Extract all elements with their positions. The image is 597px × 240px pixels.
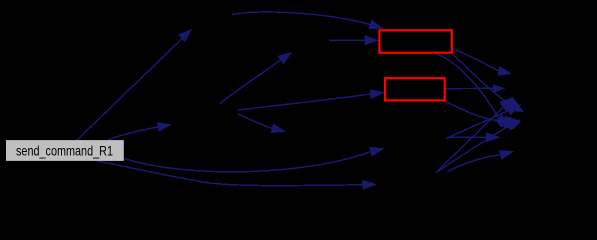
arrowhead into node2 <box>178 29 192 42</box>
arrowhead into red box1 top corner <box>368 20 383 30</box>
arrowhead into far node F3 <box>486 132 501 142</box>
arrowhead into node6 <box>271 123 286 133</box>
edge node5 to node6 <box>238 114 272 128</box>
red box2 (highlighted node, truncated graph) <box>385 78 445 100</box>
svg-text:send_command_R1: send_command_R1 <box>16 144 113 159</box>
edge send_command_R1 to node2 (top) <box>77 39 182 140</box>
edge node5 to red box2 <box>238 94 370 110</box>
edge node8 to far node F4 <box>448 155 501 172</box>
red box1 (highlighted node, truncated graph) <box>379 30 451 52</box>
edge red box2 corner to far cluster (descending) <box>445 101 505 120</box>
arrowhead into far node F1 <box>497 66 512 76</box>
arrowhead far cluster from node7 <box>506 105 521 116</box>
arrowhead into node8 <box>362 180 377 190</box>
arrowhead far cluster upper from node8 steepest <box>500 98 514 111</box>
arrowhead into red box2 <box>370 89 385 99</box>
edge nodeX to red box1 (horizontal) <box>329 39 365 41</box>
edge node8 to far cluster upper (steepest ascending) <box>438 107 503 170</box>
arrowhead far cluster upper from red box1 <box>509 101 524 113</box>
arrowhead into far node F4 <box>499 150 514 160</box>
far cluster upper lobe overlap filler <box>500 97 525 112</box>
node send_command_R1 (grey current node) <box>6 140 124 161</box>
edge send_command_R1 to node8 (bottom curve) <box>97 161 363 186</box>
edge red box1 bottom to far cluster lower (steep descending) <box>436 54 499 118</box>
edge node8 to far cluster (steep ascending) <box>436 126 508 172</box>
edge node7 to far node F3 (horizontal) <box>447 136 486 138</box>
arrowhead into red box1 left <box>365 35 380 45</box>
arrowhead into node7 <box>369 147 384 157</box>
far cluster lower lobe overlap filler <box>496 116 521 129</box>
arrowhead into node5 <box>157 122 172 132</box>
edge node7 to far cluster (ascending) <box>446 111 508 139</box>
arrowhead far cluster lower from red box1 <box>495 114 509 128</box>
arrowhead far cluster from red box2 <box>504 116 519 126</box>
edge red box1 corner to far cluster upper (descending) <box>453 54 512 105</box>
arrowhead into far node F2 <box>493 84 506 93</box>
edge red box1 to far node F1 <box>453 49 499 71</box>
edge node5 to nodeX <box>220 60 281 103</box>
edge node2 to red box1 (top long curve) <box>232 12 370 24</box>
edge red box2 to far node F2 (horizontal) <box>446 87 494 89</box>
edge send_command_R1 to node7 (lower bottom curve) <box>124 152 371 172</box>
edge send_command_R1 to node5 (middle) <box>108 127 158 140</box>
arrowhead into nodeX <box>278 52 293 64</box>
arrowhead far cluster from node8 <box>506 119 521 130</box>
